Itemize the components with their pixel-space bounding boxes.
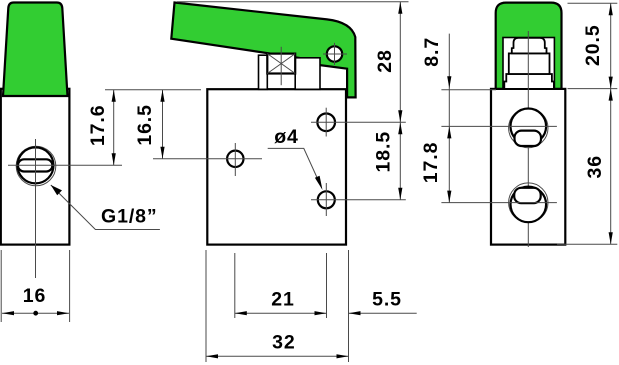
left hole centerline vertical [234, 143, 236, 176]
plunger middle (right view) [509, 53, 550, 74]
dim 32 line [206, 355, 349, 357]
valve body (left view) [1, 89, 70, 245]
vertical centerline (right view) [527, 31, 529, 247]
svg-text:ø4: ø4 [274, 126, 299, 148]
dim 20.5 arrow down [609, 77, 613, 89]
cap cavity (right view) [503, 38, 554, 89]
pivot hole centerline horizontal [323, 53, 347, 55]
dim 5.5 line [349, 312, 417, 314]
dim 36 bottom extension line [557, 243, 617, 245]
dim 16 line [2, 312, 69, 314]
left mounting hole (front view) [227, 151, 243, 167]
dim 16 extension line left [0, 250, 2, 322]
svg-text:16.5: 16.5 [134, 104, 156, 146]
dim 28 arrow up [398, 2, 402, 14]
port vertical centerline (left view) [35, 139, 37, 278]
dim 21 line [235, 312, 327, 314]
dim 28 top extension line [177, 1, 409, 3]
dim 36 arrow up [609, 89, 613, 101]
roller box with cross (front view) [267, 54, 295, 74]
upper hole centerline vertical [325, 108, 327, 137]
leader line G1/8 [51, 185, 160, 230]
port thread thin circle (left view) [16, 146, 56, 186]
dim 32 extension line left [205, 250, 207, 362]
svg-text:21: 21 [271, 289, 295, 311]
dim 16 arrow left [2, 311, 14, 315]
lever pivot hole (front view) [327, 46, 342, 61]
dim 18.5 line [399, 122, 401, 200]
dim 20.5 line [610, 3, 612, 88]
dim 18.5 arrow up [398, 122, 402, 134]
lower port thin circle (right view) [509, 183, 548, 222]
dim 20.5 arrow up [609, 3, 613, 15]
dim 17.6 arrow down [112, 153, 116, 165]
leader arrowhead ø4 [315, 176, 323, 190]
dim 21 extension line right [326, 253, 328, 318]
lever (left view, green) [3, 3, 68, 97]
dim 16 extension line right [69, 250, 71, 322]
svg-text:20.5: 20.5 [582, 24, 604, 66]
left hole centerline horizontal [153, 158, 262, 160]
dim 17.8 arrow up [447, 126, 451, 138]
dim 32 arrow left [206, 354, 218, 358]
svg-text:28: 28 [374, 49, 396, 73]
dim 8.7 ref line [441, 89, 496, 91]
svg-text:18.5: 18.5 [372, 131, 394, 173]
dim 32 extension line right [348, 250, 350, 362]
cap (right view, green) [496, 3, 562, 89]
upper port slot (right view) [515, 131, 542, 146]
dim 16.5 arrow down [160, 147, 164, 159]
plunger top (right view) [512, 38, 547, 54]
dim 20.5 top extension line [568, 2, 618, 4]
upper port circle (right view) [511, 109, 547, 145]
dim 32 arrow right [337, 354, 349, 358]
dim 8.7 arrow down [447, 76, 451, 88]
dim 16 center dot [33, 311, 38, 316]
lower right hole (front view) [318, 191, 335, 208]
dim 36 arrow down [609, 232, 613, 244]
dim 18.5 arrow down [398, 188, 402, 200]
dim 28 line [399, 2, 401, 123]
svg-text:17.8: 17.8 [420, 142, 442, 184]
dim 21 arrow left [235, 311, 247, 315]
dim 28 arrow down [398, 110, 402, 122]
svg-text:36: 36 [584, 155, 606, 179]
lower hole centerline vertical [325, 183, 327, 216]
port screw slot (left view) [18, 159, 53, 171]
dim 16.5 line [162, 90, 164, 159]
dim 21 extension line left [234, 253, 236, 318]
dim 5.5 arrow [349, 311, 361, 315]
dim 21 arrow right [315, 311, 327, 315]
dim 17.6 arrow up [112, 90, 116, 102]
upper right hole (front view) [317, 114, 335, 132]
body top extension line right [568, 88, 618, 90]
lower port slot (right view) [514, 188, 541, 203]
lower hole centerline horizontal [311, 199, 406, 201]
top extension line (body top level) [105, 89, 201, 91]
plunger base (right view) [504, 74, 554, 89]
svg-text:5.5: 5.5 [372, 289, 402, 311]
roller box diagonal 1 [267, 54, 295, 74]
svg-text:17.6: 17.6 [87, 105, 109, 147]
plunger pedestal left (front view) [259, 55, 268, 89]
svg-text:G1/8”: G1/8” [101, 206, 158, 228]
valve body (right view) [491, 89, 565, 245]
svg-text:32: 32 [272, 332, 296, 354]
dim 16.5 arrow up [160, 90, 164, 102]
lower port circle (right view) [511, 187, 547, 223]
svg-text:16: 16 [23, 285, 47, 307]
dim 36 line [610, 89, 612, 245]
roller box diagonal 2 [267, 54, 295, 74]
dim 17.8 arrow down [447, 191, 451, 203]
leader arrowhead G1/8 [51, 185, 62, 195]
valve body (front view) [207, 89, 346, 244]
dim 8.7 line [448, 34, 450, 203]
upper port centerline horizontal / 17.8 ext [441, 125, 557, 127]
dim 17.6 line [113, 90, 115, 166]
upper port thin circle (right view) [509, 108, 548, 147]
lower port centerline horizontal / 17.8 ext [441, 202, 557, 204]
leader line ø4 [268, 148, 320, 183]
dim 16 arrow right [57, 311, 69, 315]
roller centerline vertical [280, 47, 282, 85]
svg-text:8.7: 8.7 [421, 37, 443, 67]
lever (front view, green) [171, 3, 355, 98]
plunger pedestal right (front view) [295, 58, 320, 90]
port horizontal centerline (left view) [8, 164, 122, 166]
upper hole centerline horizontal / ext 28-18.5 [311, 121, 406, 123]
pivot hole centerline vertical [334, 43, 336, 65]
port main circle (left view) [18, 147, 54, 183]
